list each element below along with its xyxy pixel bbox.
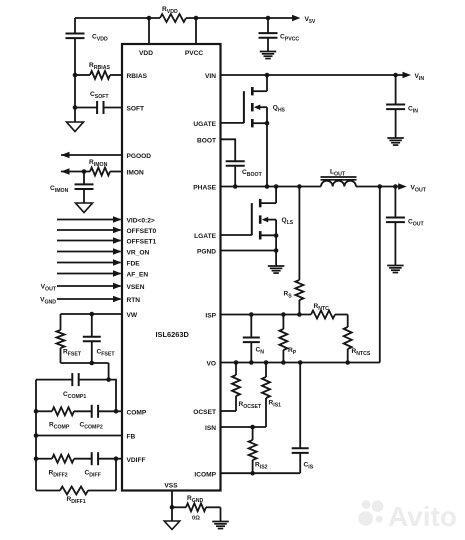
capacitor CSOFT xyxy=(96,101,98,114)
resistor RIS1 xyxy=(262,377,270,398)
wire RFSET column xyxy=(60,314,62,330)
wire VO row xyxy=(221,362,380,364)
node ROCSET junction on VO xyxy=(234,360,239,365)
ground below CPVCC xyxy=(260,51,277,53)
node QHS source junction xyxy=(265,121,270,126)
svg-text:BOOT: BOOT xyxy=(197,138,216,145)
resistor RIMON xyxy=(90,168,110,176)
wire PHASE row xyxy=(221,186,322,188)
svg-text:VO: VO xyxy=(206,361,216,368)
svg-text:RBIAS: RBIAS xyxy=(127,73,148,80)
svg-text:PVCC: PVCC xyxy=(185,50,204,57)
wire CVDD column xyxy=(74,18,76,34)
wire input RTN with arrow xyxy=(57,298,121,300)
wire VDD pin drop xyxy=(148,18,150,44)
node RP top junction xyxy=(281,312,286,317)
wire RGND row xyxy=(172,506,186,508)
transistor QLS source stub xyxy=(260,234,276,236)
node CCOMP1 right junction xyxy=(106,377,111,382)
node RP bottom junction xyxy=(281,360,286,365)
svg-text:SOFT: SOFT xyxy=(127,106,145,113)
wire input OFFSET0 with arrow xyxy=(57,229,121,231)
node QLS source junction xyxy=(274,233,279,238)
wire IMON row with arrow xyxy=(61,171,90,173)
node CIN junction xyxy=(393,73,398,78)
svg-text:VID<0:2>: VID<0:2> xyxy=(127,218,155,225)
wire BOOT row xyxy=(221,139,236,161)
wire VOUT arrow xyxy=(398,183,407,190)
node CN top junction xyxy=(249,312,254,317)
svg-text:ISL6263D: ISL6263D xyxy=(156,330,190,339)
wire V5V arrow xyxy=(292,15,301,22)
wire RS column xyxy=(298,187,300,281)
node RIS1 junction on VO xyxy=(264,360,269,365)
capacitor CFSET xyxy=(83,336,101,338)
transistor QLS drain stub xyxy=(260,202,276,204)
resistor RRBIAS xyxy=(90,71,110,79)
wire ISP row xyxy=(221,314,312,316)
wire right rail up to VDIFF xyxy=(115,459,117,491)
svg-text:PGOOD: PGOOD xyxy=(127,153,152,160)
resistor RIS2 xyxy=(249,440,257,460)
ground below CVDD column xyxy=(67,122,84,132)
svg-text:IMON: IMON xyxy=(127,170,144,177)
resistor RNTCS xyxy=(344,327,352,349)
transistor QHS drain stub xyxy=(252,90,267,92)
svg-text:ICOMP: ICOMP xyxy=(194,472,216,479)
node SOFT junction xyxy=(73,105,78,110)
transistor QHS source stub xyxy=(252,122,267,124)
wire VW row xyxy=(61,313,123,315)
wire RDIFF1 bottom row xyxy=(36,490,60,492)
transistor QLS channel segments xyxy=(259,199,262,207)
wire PGOOD row with arrow xyxy=(61,154,122,156)
svg-text:FB: FB xyxy=(127,434,136,441)
watermark Avito logo circles xyxy=(358,511,373,526)
transistor QHS body stub with arrow xyxy=(259,106,267,108)
wire PGND row xyxy=(221,250,277,252)
wire input VID&lt;0:2&gt; with arrow xyxy=(57,219,121,221)
node PGND junction xyxy=(274,248,279,253)
ground below COUT xyxy=(387,265,404,267)
transistor QLS body stub with arrow xyxy=(267,219,276,221)
node VSS junction xyxy=(170,505,175,510)
resistor RCOMP xyxy=(52,407,74,415)
node CFSET bottom junction xyxy=(90,361,95,366)
resistor RFSET xyxy=(57,330,65,348)
capacitor CIN xyxy=(395,75,397,105)
wire rail down to CCOMP1 row xyxy=(108,363,110,380)
svg-text:VW: VW xyxy=(127,312,138,319)
node CIS top junction xyxy=(298,360,303,365)
wire CFSET column xyxy=(91,314,93,337)
wire SOFT row xyxy=(75,107,97,109)
svg-text:VDD: VDD xyxy=(139,50,153,57)
capacitor COUT xyxy=(394,187,396,218)
node RS junction on PHASE xyxy=(297,184,302,189)
wire input VR_ON with arrow xyxy=(57,251,121,253)
svg-text:FDE: FDE xyxy=(127,261,141,268)
wire VDIFF row xyxy=(36,458,52,460)
svg-text:VR_ON: VR_ON xyxy=(127,250,150,257)
node QHS drain junction xyxy=(265,73,270,78)
svg-text:LGATE: LGATE xyxy=(194,233,216,240)
ground below CIMON xyxy=(76,203,93,213)
wire RIS2 column xyxy=(252,427,254,440)
resistor RS xyxy=(295,280,303,300)
wire feedback column VOUT to VO row xyxy=(379,187,381,363)
svg-text:OFFSET0: OFFSET0 xyxy=(127,228,157,235)
capacitor CBOOT xyxy=(226,160,245,162)
transistor QHS body-source link xyxy=(266,107,268,123)
ground earth right of RGND xyxy=(212,521,229,523)
wire ICOMP row xyxy=(221,472,301,474)
wire QLS drain to PHASE xyxy=(275,187,277,204)
wire CCOMP1 row xyxy=(36,379,72,381)
ground below VSS triangle xyxy=(164,521,180,530)
wire CPVCC column xyxy=(267,18,269,33)
wire QHS drain to VIN xyxy=(266,75,268,91)
wire CIS column xyxy=(299,363,301,449)
resistor RDIFF1 xyxy=(60,487,88,495)
op-amp U1 IC body ISL6263D xyxy=(122,44,221,491)
wire RNTCS column xyxy=(347,315,349,328)
wire input FDE with arrow xyxy=(57,262,121,264)
node VDIFF left junction xyxy=(34,456,39,461)
svg-text:ISN: ISN xyxy=(205,425,216,432)
svg-text:RTN: RTN xyxy=(127,297,141,304)
wire QLS source to ground xyxy=(275,236,277,267)
node RNTCS bottom junction xyxy=(345,360,350,365)
node RIS2 junction on ISN xyxy=(250,425,255,430)
wire OCSET row xyxy=(221,410,237,412)
resistor ROCSET xyxy=(232,375,240,396)
node COUT junction xyxy=(393,184,398,189)
wire QHS source to PHASE xyxy=(266,123,268,186)
svg-text:ISP: ISP xyxy=(205,313,216,320)
wire VIN row xyxy=(221,74,404,76)
svg-text:VDIFF: VDIFF xyxy=(127,457,146,464)
transistor QHS gate bar and gate wire xyxy=(243,91,245,123)
svg-text:UGATE: UGATE xyxy=(193,121,216,128)
node COMP left junction xyxy=(34,409,39,414)
svg-text:OCSET: OCSET xyxy=(193,409,216,416)
resistor RVDD xyxy=(160,14,186,22)
svg-text:PGND: PGND xyxy=(197,249,216,256)
node VDD junction on 5V rail xyxy=(147,16,152,21)
wire VSS column xyxy=(171,491,173,522)
node CPVCC junction on 5V rail xyxy=(266,16,271,21)
svg-text:VSEN: VSEN xyxy=(127,284,145,291)
transistor QLS gate bar and gate wire xyxy=(251,203,253,235)
transistor QHS channel segments xyxy=(251,87,254,95)
node VDIFF right junction xyxy=(114,456,119,461)
wire LGATE row xyxy=(221,234,252,236)
svg-text:VIN: VIN xyxy=(205,73,216,80)
capacitor CCOMP2 xyxy=(91,405,93,418)
node FB left junction xyxy=(34,433,39,438)
node CIMON junction xyxy=(82,169,87,174)
resistor RDIFF2 xyxy=(52,455,74,463)
node CN bottom junction xyxy=(249,360,254,365)
capacitor CVDD xyxy=(66,33,85,35)
wire RIS1 column xyxy=(265,363,267,378)
wire CIMON column xyxy=(83,172,85,185)
svg-text:COMP: COMP xyxy=(127,410,147,417)
node QLS drain junction on PHASE xyxy=(274,184,279,189)
ground below QLS source xyxy=(268,265,285,267)
svg-text:AF_EN: AF_EN xyxy=(127,272,149,279)
capacitor CDIFF xyxy=(91,452,93,465)
node RS bottom junction xyxy=(297,312,302,317)
wire PVCC pin drop xyxy=(195,18,197,44)
node RBIAS junction xyxy=(73,73,78,78)
wire left rail of compensation network xyxy=(35,380,37,491)
capacitor CIMON xyxy=(75,183,94,185)
capacitor CCOMP1 xyxy=(71,373,73,386)
inductor LOUT core bars xyxy=(321,176,357,178)
inductor LOUT xyxy=(321,181,356,187)
wire RBIAS row xyxy=(75,74,90,76)
wire FB row xyxy=(36,435,122,437)
resistor RNTC xyxy=(311,311,335,319)
node QHS source column junction on PHASE xyxy=(265,184,270,189)
transistor QLS body-source link xyxy=(275,220,277,236)
wire input OFFSET1 with arrow xyxy=(57,240,121,242)
wire input AF_EN with arrow xyxy=(57,273,121,275)
wire ROCSET column xyxy=(235,363,237,376)
wire ISN row xyxy=(221,426,267,428)
wire link CCOMP1 to COMP pin xyxy=(109,380,116,412)
wire VIN arrow xyxy=(403,72,412,79)
node feedback column junction xyxy=(378,184,383,189)
wire UGATE row xyxy=(221,122,244,124)
capacitor CN column xyxy=(250,315,252,338)
wire input VSEN with arrow xyxy=(57,285,121,287)
capacitor CPVCC xyxy=(259,32,278,34)
wire CBOOT bottom to PHASE xyxy=(234,166,236,187)
resistor RGND xyxy=(186,503,206,511)
node COMP right junction xyxy=(114,409,119,414)
svg-text:Avito: Avito xyxy=(388,501,457,532)
wire COMP row xyxy=(36,410,52,412)
wire RP column xyxy=(282,315,284,330)
wire top 5V rail xyxy=(75,17,160,19)
wire FSET bottom row xyxy=(61,362,109,364)
capacitor CIS xyxy=(292,447,309,449)
node PVCC junction on 5V rail xyxy=(194,16,199,21)
wire RGND to earth ground xyxy=(220,507,222,521)
resistor RP xyxy=(279,329,287,350)
wire PHASE after inductor to VOUT arrow xyxy=(356,186,399,188)
node RIS2 bottom junction on ICOMP xyxy=(250,471,255,476)
svg-text:0Ω: 0Ω xyxy=(192,516,200,522)
svg-text:VSS: VSS xyxy=(164,483,178,490)
svg-text:PHASE: PHASE xyxy=(193,185,216,192)
ground below CIN xyxy=(387,137,404,139)
node CBOOT junction on PHASE xyxy=(233,184,238,189)
svg-text:OFFSET1: OFFSET1 xyxy=(127,239,157,246)
node CFSET top junction xyxy=(90,312,95,317)
